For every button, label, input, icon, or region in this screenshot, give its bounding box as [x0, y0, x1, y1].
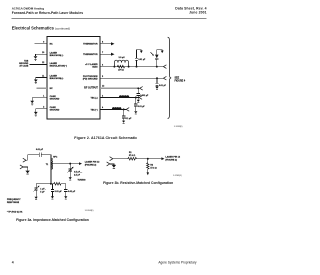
capacitor C9	[64, 190, 67, 197]
wire input drop	[27, 155, 29, 161]
wire shield to ground	[23, 167, 28, 171]
svg-text:2.5 pF: 2.5 pF	[74, 174, 81, 176]
inductor FB2	[119, 96, 129, 98]
capacitor C7 trimmer	[35, 184, 38, 197]
svg-text:0.01 µF: 0.01 µF	[36, 149, 44, 151]
arrow thermistor row1	[111, 42, 115, 45]
node junction r5	[137, 87, 139, 89]
node junction r3c	[136, 66, 138, 68]
capacitor C2	[155, 78, 158, 86]
inductor L1 arch	[114, 60, 128, 66]
arrow trimmer C6	[67, 167, 73, 173]
node junction r3b	[128, 66, 130, 68]
svg-text:270 Ω: 270 Ω	[118, 69, 124, 71]
svg-text:0.01 µF: 0.01 µF	[138, 106, 146, 108]
svg-text:0.01 µF: 0.01 µF	[159, 85, 167, 87]
svg-text:FIGURE 4: FIGURE 4	[175, 80, 186, 83]
ground below C10	[137, 100, 140, 103]
svg-text:LASER PIN 13: LASER PIN 13	[165, 156, 180, 159]
svg-text:(FIGURE 2): (FIGURE 2)	[85, 165, 97, 167]
svg-text:57.6 Ω: 57.6 Ω	[129, 155, 136, 157]
arrow to laser pin 13 3b	[161, 157, 164, 160]
svg-text:TUNING: TUNING	[78, 179, 86, 181]
resistor R2 3b	[147, 163, 149, 169]
wire pin 5 right row4	[100, 77, 163, 79]
node junction tap	[69, 163, 71, 165]
ground below C9	[64, 196, 67, 199]
svg-text:Electrical Schematics (continu: Electrical Schematics (continued)	[12, 26, 70, 31]
svg-text:June 2001: June 2001	[189, 11, 206, 15]
svg-text:MODULATION(−): MODULATION(−)	[50, 65, 68, 68]
svg-text:0.1 µF: 0.1 µF	[126, 118, 132, 120]
ground at pin 2	[34, 112, 38, 117]
wire main 3b right	[137, 158, 162, 160]
arrow trimmer C7	[33, 186, 39, 192]
svg-text:BIAS: BIAS	[92, 66, 98, 69]
connector chevron RF in shield 3b	[107, 162, 110, 166]
connector chevron row4	[163, 76, 166, 80]
node junction r3a	[113, 66, 115, 68]
connector chevron row5	[140, 87, 143, 91]
supply arrow above C1	[137, 50, 143, 54]
svg-text:A1761A DWDM Analog: A1761A DWDM Analog	[12, 7, 44, 11]
ground below C3	[134, 111, 137, 114]
capacitor C3	[134, 98, 137, 112]
svg-text:THERMISTOR: THERMISTOR	[83, 54, 98, 56]
svg-text:(FIGURE 2): (FIGURE 2)	[165, 160, 177, 162]
svg-text:Figure 3a. Impedance-Matched C: Figure 3a. Impedance-Matched Configurati…	[16, 218, 89, 222]
svg-text:* TP (PAD 2) 1%: * TP (PAD 2) 1%	[7, 210, 23, 213]
ground RF input	[25, 171, 29, 175]
svg-text:TEC(−): TEC(−)	[90, 109, 97, 111]
wire pin 2 left row7	[36, 109, 47, 112]
arrow into diode D1	[151, 52, 154, 56]
wire pin 6 right row3	[100, 66, 163, 68]
connector chevron RF in signal	[23, 158, 26, 162]
wire tap to laser	[51, 163, 79, 165]
inductor FB3	[112, 108, 121, 110]
svg-text:FREQUENCY: FREQUENCY	[7, 199, 21, 201]
svg-text:1 pF–: 1 pF–	[40, 189, 46, 191]
svg-text:5 pF: 5 pF	[40, 191, 45, 193]
ground below C6	[69, 177, 72, 180]
svg-text:1-1265(F): 1-1265(F)	[173, 175, 182, 177]
svg-text:0.01 µF: 0.01 µF	[55, 191, 63, 193]
node junction T1 bottom	[50, 183, 52, 185]
capacitor C1	[135, 50, 138, 67]
svg-text:Figure 3b. Resistive-Matched C: Figure 3b. Resistive-Matched Configurati…	[103, 181, 173, 185]
svg-text:(PD) GROUND: (PD) GROUND	[83, 79, 98, 81]
svg-text:RFC: RFC	[53, 157, 58, 159]
wire R2 drop	[147, 159, 149, 163]
wire top rail to T1	[41, 154, 51, 156]
node junction 3b	[147, 158, 149, 160]
wire pin 8 right row1	[100, 43, 112, 45]
svg-text:0.5 pF—: 0.5 pF—	[74, 172, 83, 174]
resistor R3	[54, 183, 61, 186]
svg-text:0.01 µF: 0.01 µF	[68, 191, 76, 193]
node junction r3d	[156, 66, 158, 68]
svg-text:SEE: SEE	[175, 78, 180, 80]
svg-text:BIAS MON(+): BIAS MON(+)	[50, 77, 64, 80]
capacitor C4	[122, 109, 125, 120]
inductor T1 coil	[51, 160, 53, 169]
diode D1	[155, 50, 159, 67]
wire top rail fig3a	[28, 154, 40, 156]
svg-text:Agere Systems Proprietary: Agere Systems Proprietary	[158, 261, 196, 265]
svg-text:RF OUTPUT: RF OUTPUT	[84, 87, 98, 90]
wire pin 12 left row3 to tab	[29, 63, 47, 65]
ground below C7	[35, 197, 38, 200]
supply arrow above D1	[157, 50, 164, 54]
wire pin 9 NC left row1	[35, 43, 47, 45]
arrow to laser pin 13	[79, 162, 82, 165]
svg-text:LASER PIN 13: LASER PIN 13	[85, 161, 100, 164]
wire pin 3 right row6	[100, 97, 139, 99]
svg-text:TEC(+): TEC(+)	[90, 98, 97, 100]
capacitor C6 trimmer	[69, 164, 72, 178]
wire C9 drop	[65, 184, 67, 190]
resistor R1	[117, 65, 124, 68]
svg-text:1-1263(F): 1-1263(F)	[174, 126, 183, 128]
capacitor C8	[51, 184, 54, 197]
svg-text:57.6 Ω: 57.6 Ω	[150, 168, 157, 170]
svg-text:BIAS MON(−): BIAS MON(−)	[50, 54, 64, 57]
ground RF input 3b	[112, 165, 116, 169]
connector chevron row3	[163, 65, 166, 69]
wire to RF connector	[138, 87, 139, 89]
svg-text:GROUND: GROUND	[50, 99, 60, 101]
resistor R1 3b	[128, 157, 137, 160]
wire RF stripline row5	[100, 87, 138, 89]
wire R2 to arrow	[147, 169, 149, 172]
ground below C8	[51, 196, 54, 199]
connector chevron row6	[139, 96, 142, 100]
connector chevron RF in signal 3b	[110, 157, 113, 161]
ground at pin 11	[34, 80, 38, 85]
wire bottom rail fig3a	[36, 183, 54, 185]
wire pin 10 left row2	[36, 54, 47, 56]
svg-text:0.01 µF: 0.01 µF	[138, 59, 146, 61]
svg-text:AT CASE: AT CASE	[19, 64, 29, 67]
svg-text:RESPONSE: RESPONSE	[7, 202, 20, 204]
wire shield to ground 3b	[110, 164, 114, 165]
connector chevron RF in shield	[20, 165, 23, 169]
node junction r6	[135, 97, 137, 99]
wire pin 1 left row6	[32, 98, 47, 101]
connector chevron row7	[126, 108, 129, 112]
svg-text:GROUND: GROUND	[50, 110, 60, 112]
svg-text:Forward-Path or Return-Path La: Forward-Path or Return-Path Laser Module…	[12, 11, 83, 15]
wire T1 vertical	[50, 155, 52, 184]
capacitor C5	[39, 153, 41, 157]
ground at pin 1	[30, 101, 34, 105]
tap ticks T1	[51, 158, 53, 159]
node junction r4	[156, 77, 158, 79]
svg-text:THERMISTOR: THERMISTOR	[83, 44, 98, 46]
svg-text:1-1264(F): 1-1264(F)	[85, 210, 94, 212]
brace see figure 4	[168, 37, 172, 118]
svg-text:NC: NC	[50, 88, 54, 90]
node junction r7	[123, 108, 125, 110]
wire pin 4 right row7	[100, 108, 126, 110]
svg-text:Figure 2. A1761A Circuit Schem: Figure 2. A1761A Circuit Schematic	[74, 136, 137, 140]
arrow down return 3b	[147, 172, 150, 175]
wire RF input stub left row5	[37, 87, 47, 89]
ground at pin 10	[34, 56, 38, 60]
svg-text:3.9 µH: 3.9 µH	[119, 57, 125, 59]
ground below C4	[122, 121, 125, 124]
ground below C2	[155, 87, 159, 90]
wire pin 7 right row2	[100, 53, 112, 55]
svg-text:NC: NC	[50, 44, 54, 46]
wire main 3b left	[114, 158, 128, 160]
svg-text:4: 4	[12, 260, 14, 264]
arrow thermistor row2	[111, 53, 115, 56]
capacitor C10 below RF line	[137, 88, 140, 99]
module box U1	[47, 37, 100, 119]
header rule	[12, 17, 207, 19]
wire pin 11 left row4	[36, 78, 47, 80]
wire bottom rail right	[61, 183, 66, 185]
